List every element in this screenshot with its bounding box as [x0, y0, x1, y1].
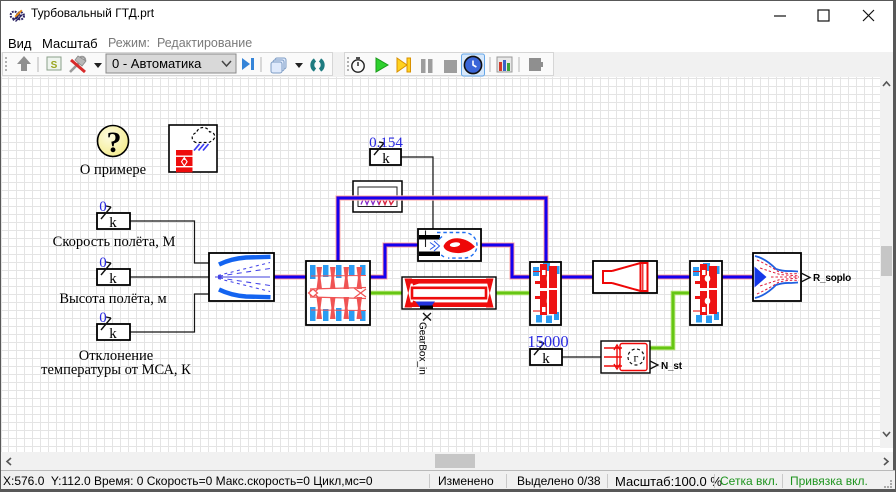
svg-text:г: г — [634, 351, 639, 365]
svg-text:Высота полёта, м: Высота полёта, м — [59, 291, 166, 307]
svg-text:температуры от МСА, К: температуры от МСА, К — [41, 362, 191, 378]
svg-text:k: k — [109, 326, 117, 342]
svg-text:0 - Автоматика: 0 - Автоматика — [112, 56, 202, 71]
svg-text:?: ? — [107, 126, 122, 159]
svg-text:N_st: N_st — [661, 361, 683, 372]
svg-text:S: S — [51, 60, 58, 71]
svg-text:GearBox_in: GearBox_in — [417, 322, 428, 375]
svg-text:0.154: 0.154 — [369, 135, 403, 151]
svg-text:0: 0 — [99, 199, 107, 215]
svg-text:k: k — [382, 151, 390, 167]
svg-text:k: k — [109, 215, 117, 231]
svg-text:k: k — [109, 271, 117, 287]
svg-text:0: 0 — [99, 310, 107, 326]
svg-text:О примере: О примере — [80, 162, 146, 178]
svg-text:R_soplo: R_soplo — [813, 273, 851, 284]
svg-text:Скорость полёта, М: Скорость полёта, М — [53, 234, 176, 250]
svg-text:15000: 15000 — [527, 332, 568, 351]
svg-text:0: 0 — [99, 255, 107, 271]
svg-text:k: k — [542, 351, 550, 367]
